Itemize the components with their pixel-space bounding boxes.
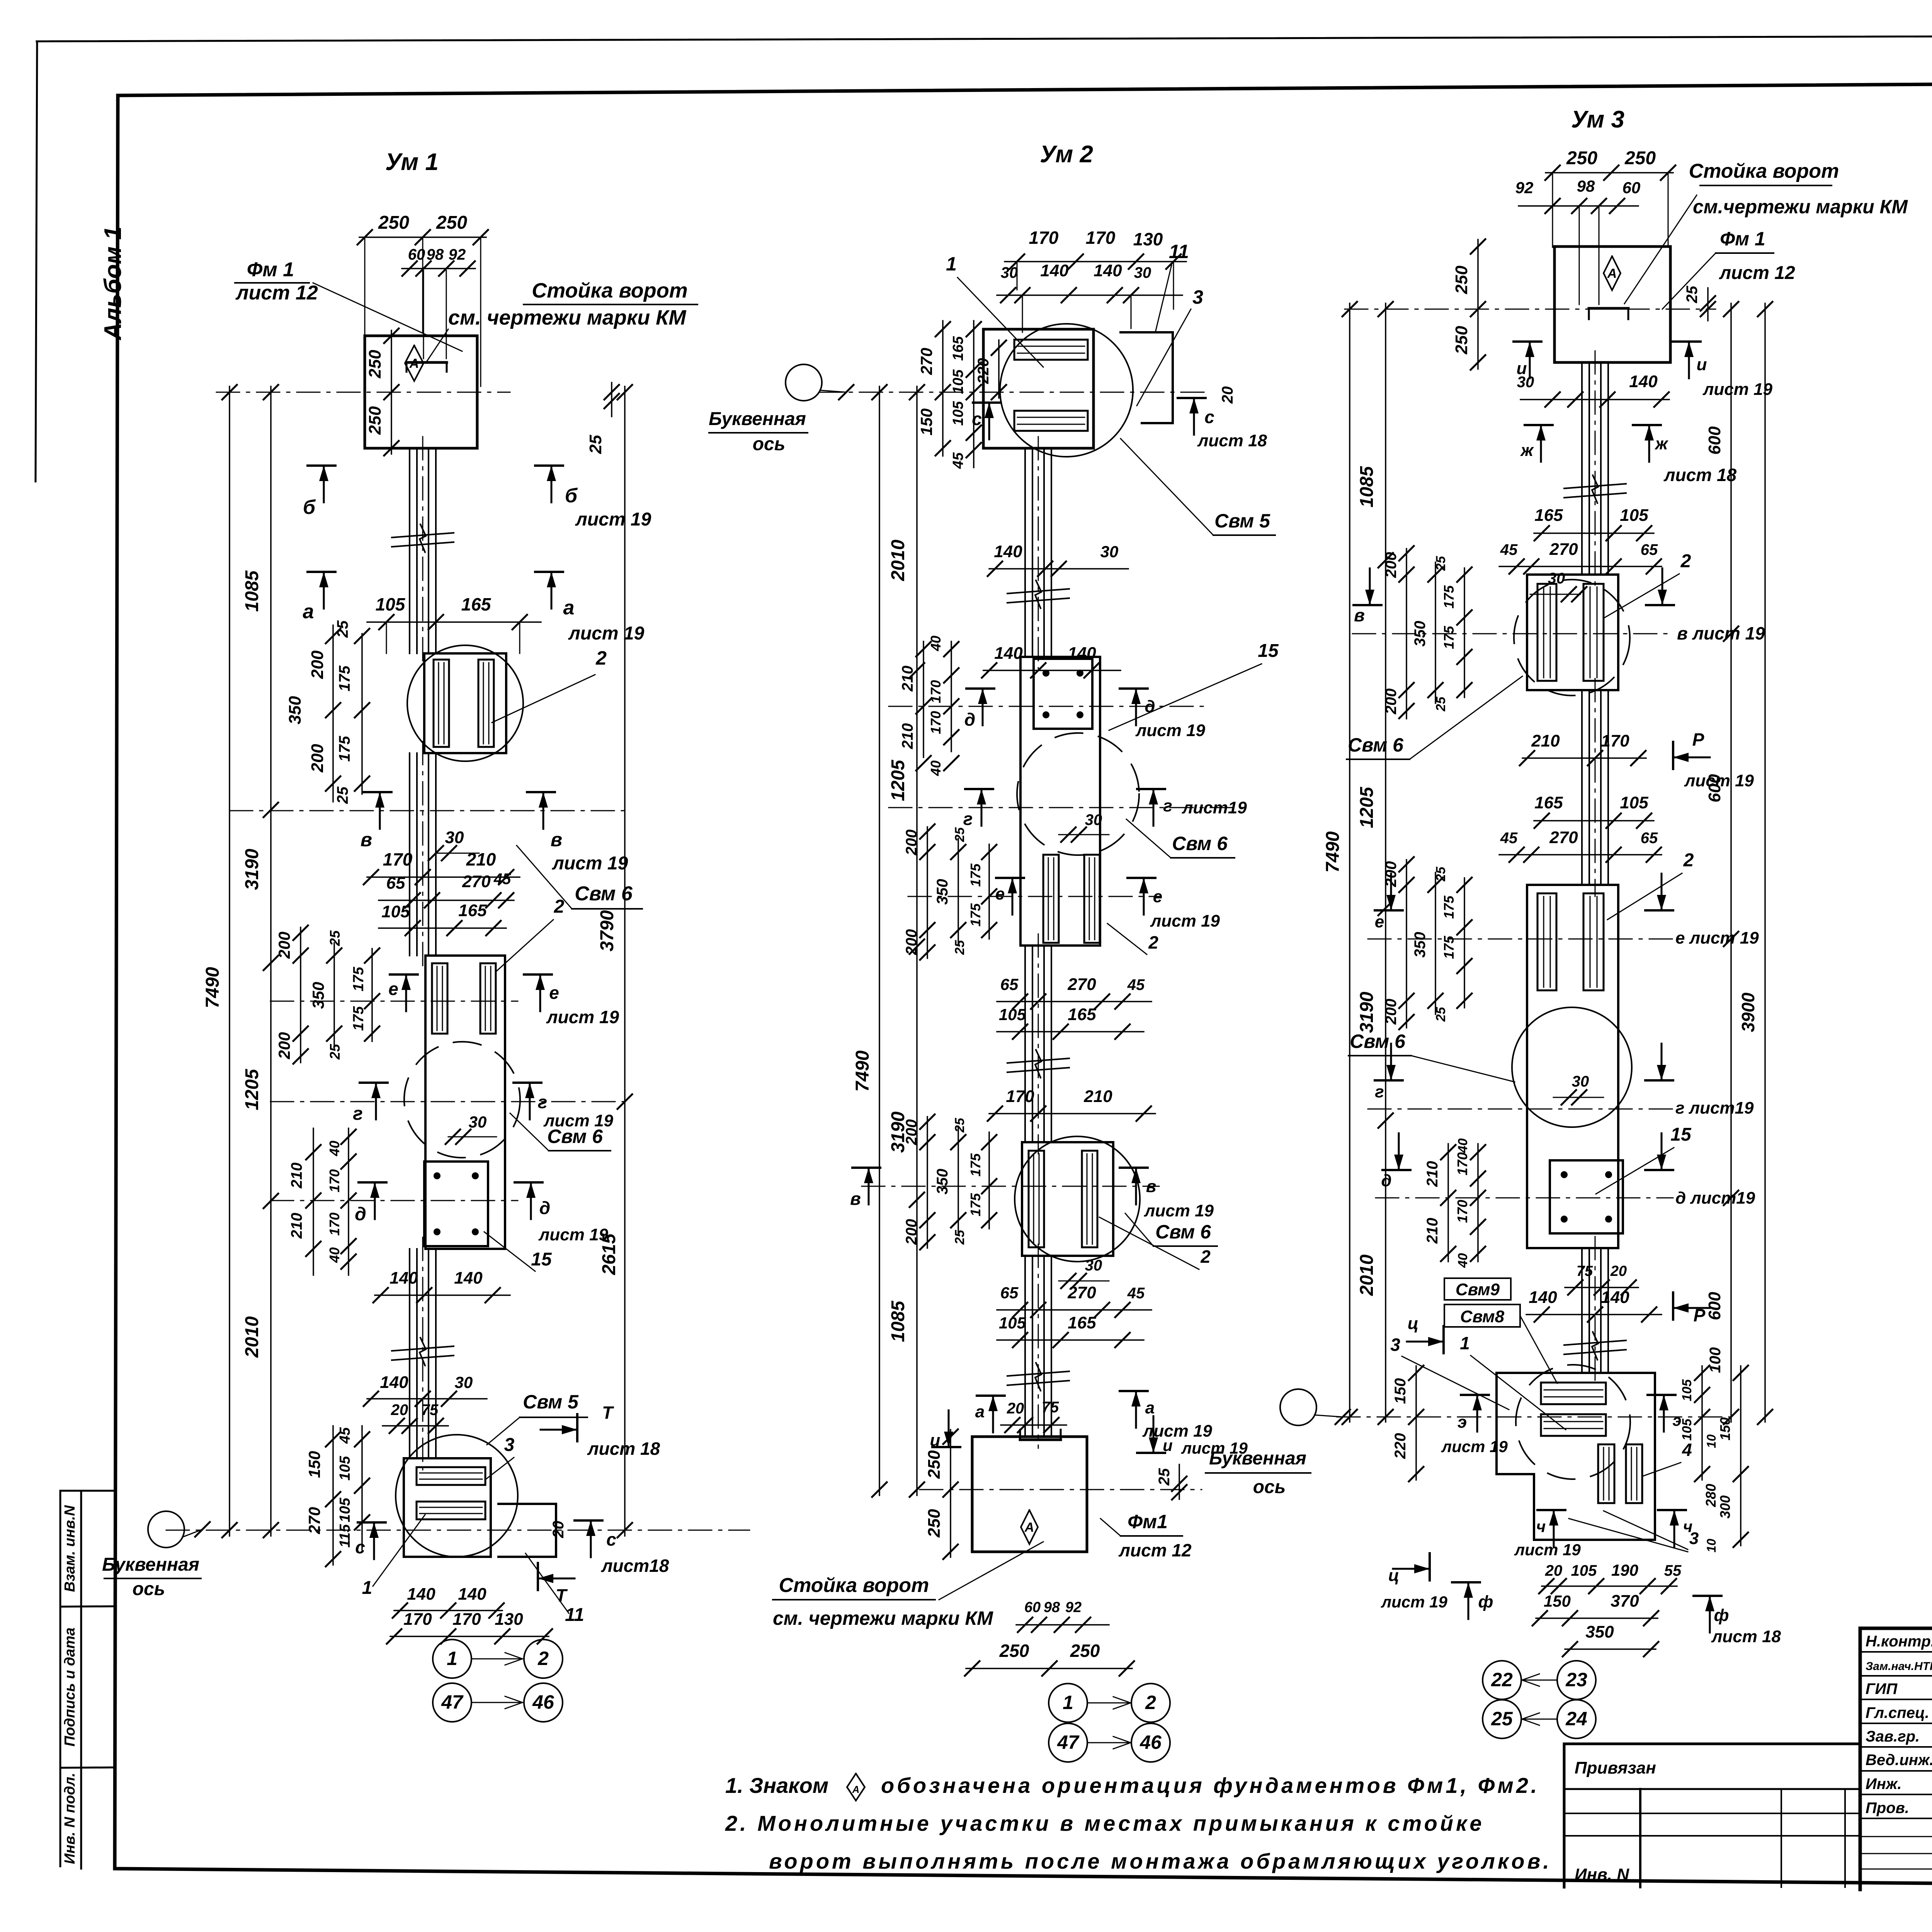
svg-text:25: 25 [952,827,967,842]
note 2 [725,1811,1485,1835]
Ум1 tube mid [410,742,436,967]
svg-text:40: 40 [327,1247,342,1263]
Ум3 dim 165 105 [1534,506,1654,541]
Ум3 cap channel [1589,308,1628,319]
svg-text:11: 11 [1169,241,1189,262]
svg-text:лист 18: лист 18 [1197,431,1267,450]
svg-text:165: 165 [950,336,966,361]
svg-text:45: 45 [1500,830,1518,847]
Ум1 detail 1 left dims [286,620,369,804]
Ум1 dim 140 30 [364,1373,487,1406]
svg-text:а: а [563,597,575,619]
svg-text:130: 130 [1133,229,1163,249]
svg-text:лист 19: лист 19 [552,853,628,874]
Ум2 detail circle dashed [1017,733,1139,855]
svg-text:20: 20 [550,1521,567,1539]
Ум3 foundation block [1554,247,1670,362]
Ум3 label Фм1 лист12 [1662,228,1795,309]
Ум1 bottom plates horizontal slots [417,1467,485,1519]
svg-text:б: б [303,496,316,519]
svg-text:170: 170 [1029,228,1059,248]
Ум3 ч arrows [1514,1510,1692,1559]
svg-text:с: с [355,1537,365,1557]
svg-text:Т: Т [602,1403,614,1423]
svg-text:25: 25 [952,1230,967,1245]
svg-text:лист 19: лист 19 [1144,1201,1214,1220]
svg-text:г: г [1163,796,1172,815]
svg-text:45: 45 [1127,1285,1145,1302]
svg-text:ф: ф [1714,1606,1729,1625]
staff row ГИП Лихачев [1866,1680,1932,1697]
Ум3 detail1 left dims [1383,546,1472,719]
Ум3 bottom left dims [1392,1366,1423,1481]
svg-text:140: 140 [1040,261,1069,280]
svg-text:25: 25 [1684,286,1701,303]
Ум2 label Свм6 (1) [1126,819,1235,858]
svg-text:и: и [1697,355,1707,374]
outer border top [37,34,1932,41]
svg-text:92: 92 [449,246,466,263]
svg-text:3190: 3190 [242,849,262,890]
svg-text:Ум 1: Ум 1 [385,149,439,175]
svg-text:Стойка ворот: Стойка ворот [779,1574,929,1597]
svg-text:45: 45 [337,1427,353,1444]
svg-text:170: 170 [928,711,944,734]
svg-text:165: 165 [461,594,492,614]
Ум1 section b arrows [303,466,651,530]
svg-text:140: 140 [458,1585,486,1604]
Ум1 label Свм 5 [487,1391,587,1445]
Ум1 section d arrows [355,1182,608,1244]
svg-text:65: 65 [1000,975,1019,993]
Ум2 dim 105 165 [997,1005,1144,1039]
staff row Вед.инж. Нелидова [1866,1751,1932,1769]
svg-text:105: 105 [999,1005,1026,1024]
svg-text:лист 19: лист 19 [575,509,651,530]
Ум2 label 11 [1155,241,1189,332]
Ум2 section d arrows [964,689,1206,740]
Ум3 bottom dim 350 [1563,1622,1658,1656]
Ум3 Буквенная ось [1206,1389,1350,1497]
svg-text:2: 2 [1145,1692,1156,1713]
svg-text:65: 65 [1000,1284,1019,1302]
svg-text:24: 24 [1565,1708,1587,1730]
Ум1 bottom axis [166,1530,750,1531]
Ум3 section v axis [1352,633,1673,634]
Ум3 section e arrows [1375,874,1759,947]
svg-text:45: 45 [493,871,511,888]
Ум3 dashed circle upper [1514,580,1630,696]
Ум1 detail 1 label 2 [492,647,607,723]
svg-text:25: 25 [952,940,967,955]
svg-text:3790: 3790 [597,910,617,951]
svg-text:65: 65 [386,874,405,893]
svg-text:ж: ж [1520,441,1534,460]
svg-text:е: е [549,983,559,1003]
svg-text:105: 105 [376,594,406,614]
Ум3 label 2 upper [1604,551,1691,618]
Ум1 circled axis numbers 47 46 [433,1683,563,1722]
svg-text:лист 19: лист 19 [568,623,645,644]
svg-text:165: 165 [1068,1005,1096,1024]
Ум3 section i arrows [1514,342,1773,399]
svg-text:3900: 3900 [1738,992,1758,1032]
svg-text:130: 130 [495,1610,523,1629]
svg-text:3: 3 [504,1435,515,1455]
svg-text:210: 210 [288,1163,305,1189]
svg-text:лист18: лист18 [601,1556,669,1576]
Ум1 bottom left chain 45 150 105 105 115 270 [305,1426,369,1566]
svg-text:170: 170 [452,1610,481,1629]
Ум2 lower circle [1015,1136,1140,1262]
svg-text:45: 45 [1500,541,1518,558]
Ум3 section g arrows [1375,1044,1754,1117]
Ум3 slots mid [1537,893,1604,990]
svg-text:1205: 1205 [1357,786,1377,828]
Ум2 detail2 left dims [903,824,997,960]
Ум1 detail 1 plates [424,653,506,753]
Ум3 dim 210 170 [1520,731,1646,765]
svg-text:лист 19: лист 19 [1702,380,1773,399]
svg-text:105: 105 [1571,1562,1597,1579]
Ум1 detail2 left dims [275,925,379,1064]
svg-text:Буквенная: Буквенная [1209,1448,1306,1469]
svg-text:165: 165 [1068,1313,1096,1332]
svg-text:и: и [930,1431,940,1450]
svg-text:165: 165 [1534,506,1563,525]
Ум1 label 15 [484,1232,552,1271]
svg-text:и: и [1163,1436,1173,1454]
svg-text:10: 10 [1704,1539,1718,1553]
svg-text:140: 140 [454,1269,483,1287]
svg-text:65: 65 [1641,541,1658,558]
Ум3 monolith box lower [1527,885,1618,1248]
Ум3 label Свм9 boxed [1444,1278,1511,1300]
Ум2 slot plates lower [1029,1151,1097,1247]
svg-text:105: 105 [1680,1379,1694,1401]
Ум1 section v arrows [361,792,628,874]
svg-text:45: 45 [950,452,966,469]
svg-text:175: 175 [1441,626,1457,649]
Ум1 T mark bottom [538,1563,575,1605]
Ум3 section e axis [1368,939,1673,940]
svg-text:170: 170 [1006,1087,1034,1106]
svg-text:170: 170 [1086,228,1116,248]
svg-text:220: 220 [1392,1433,1409,1459]
svg-text:92: 92 [1515,179,1534,197]
Ум3 bottom dashed circle [1516,1365,1630,1479]
Ум3 ф mark left [1452,1582,1493,1619]
Ум2 left chain 7490 [852,385,887,1497]
Ум2 break mid [1007,1050,1069,1078]
svg-text:Т: Т [556,1585,568,1605]
Ум3 left chain 7490 [1323,302,1357,1424]
Ум1 tube lower [410,1237,436,1470]
svg-text:в: в [1354,605,1365,625]
Ум1 section g arrows [353,1083,613,1130]
svg-text:А: А [1607,266,1617,281]
svg-text:600: 600 [1705,1292,1724,1320]
Ум2 tube lower [1025,1244,1051,1448]
svg-text:2: 2 [595,647,607,669]
svg-text:ворот выполнять после монт: ворот выполнять после монтажа обрамляющи… [769,1849,1552,1873]
Ум1 dim 105 165 [367,594,541,653]
Ум2 dim 220 [975,340,1006,400]
Ум2 detail3 left dims [903,1114,997,1250]
Ум1 bottom dim 170 170 130 [387,1610,552,1644]
Ум3 detail2 left dims [1383,857,1472,1029]
svg-text:Свм 6: Свм 6 [1350,1031,1406,1052]
svg-text:Зав.гр.: Зав.гр. [1866,1728,1920,1745]
svg-text:лист 12: лист 12 [1118,1540,1192,1560]
Ум2 dim 30 (2) [1059,1257,1109,1288]
Ум1 dim 65 270 45 [379,871,514,908]
staff row Инж. Исаева [1866,1775,1932,1793]
Ум2 monolith outline lower [1022,1142,1113,1256]
Ум2 label 15 [1109,641,1279,730]
Ум2 left chain 2010 1205 3190 1085 [888,385,924,1497]
svg-text:д: д [355,1204,366,1225]
svg-text:250: 250 [378,213,409,233]
margin label Альбом 1 [100,226,126,341]
svg-text:30: 30 [1085,1257,1102,1274]
Ум3 labels 3 1 bottom [1390,1333,1566,1430]
svg-text:20: 20 [391,1401,408,1418]
svg-text:210: 210 [1424,1161,1441,1187]
svg-text:175: 175 [350,1006,367,1031]
Ум3 circled numbers 25 24 [1483,1700,1596,1738]
Ум2 dim 170 210 [988,1087,1155,1121]
svg-text:в: в [850,1189,861,1209]
Ум3 tube mid [1582,679,1608,896]
Ум1 column cap channel [406,362,447,372]
svg-text:25: 25 [1434,1007,1448,1022]
svg-text:98: 98 [427,246,444,263]
svg-text:3: 3 [1689,1529,1699,1548]
note 3 [769,1849,1552,1873]
svg-text:210: 210 [466,849,496,869]
outer border left (partial) [36,41,37,481]
svg-text:47: 47 [441,1691,464,1713]
svg-text:60: 60 [1622,179,1641,197]
svg-text:лист 19: лист 19 [546,1007,619,1027]
svg-text:25: 25 [586,435,605,454]
svg-text:7490: 7490 [852,1050,873,1092]
svg-text:г: г [963,809,973,829]
svg-text:270: 270 [305,1507,323,1534]
svg-text:Свм 5: Свм 5 [1214,510,1270,532]
svg-text:350: 350 [286,696,304,724]
column Ум2 title [1040,141,1093,168]
svg-text:30: 30 [1100,543,1119,561]
svg-text:25: 25 [334,786,351,804]
svg-text:20: 20 [1610,1263,1627,1279]
Ум2 Буквенная ось [709,364,854,454]
svg-text:220: 220 [975,358,992,384]
svg-text:22: 22 [1491,1669,1513,1690]
Ум3 square plate [1550,1160,1623,1233]
svg-text:ось: ось [133,1579,165,1599]
svg-text:105: 105 [1620,793,1648,812]
svg-text:с: с [1204,407,1214,427]
svg-text:25: 25 [1434,696,1448,712]
Ум3 label Свм6 (1) [1347,676,1522,759]
svg-text:250: 250 [366,406,384,435]
Ум2 section i arrows [930,1410,1248,1457]
svg-text:45: 45 [1127,976,1145,993]
Ум1 left chain 40 210 170 170 210 40 [288,1128,356,1275]
Ум1 left chain 1085 3190 1205 2010 [242,385,278,1537]
Ум2 block left dim 250 250 [925,1429,958,1559]
Ум3 monolith box upper [1527,575,1618,690]
svg-text:Фм 1: Фм 1 [247,259,294,281]
Ум2 section c arrows [972,386,1267,450]
svg-text:2: 2 [1148,932,1158,952]
Ум1 detail 2 slot plates [432,963,496,1034]
svg-text:30: 30 [445,828,464,847]
svg-text:75: 75 [1042,1399,1059,1416]
Ум3 э arrows [1441,1395,1682,1456]
Ум1 column tube upper [410,437,436,665]
svg-text:Свм 5: Свм 5 [523,1391,579,1413]
Ум1 block left dim 250 250 [366,328,399,456]
svg-text:20: 20 [1545,1562,1563,1579]
svg-text:350: 350 [934,1169,951,1195]
Ум3 top dim 92 98 60 [1515,177,1641,304]
svg-text:115: 115 [337,1524,353,1548]
svg-text:165: 165 [458,901,487,920]
Ум1 block axis line [216,392,510,393]
Ум2 dim 140 30 [988,542,1128,576]
svg-text:175: 175 [350,966,367,991]
Ум3 section d arrows [1381,1133,1755,1207]
svg-text:2: 2 [1680,551,1691,571]
sidebar label Инв. N подл. [62,1773,78,1864]
Ум2 section e axis [908,896,1159,897]
svg-text:170: 170 [1454,1152,1470,1175]
Ум2 dim 65 270 45 (2) [997,1283,1151,1317]
svg-text:200: 200 [308,650,327,679]
svg-text:ф: ф [1478,1592,1493,1611]
title block main outline [1860,1628,1932,1889]
staff row Н.контр. Махонина [1866,1632,1932,1650]
svg-text:2010: 2010 [242,1316,262,1358]
svg-text:170: 170 [1454,1200,1470,1223]
svg-text:Пров.: Пров. [1866,1799,1909,1816]
svg-text:2: 2 [1200,1247,1211,1267]
svg-text:25: 25 [334,620,351,638]
Ум1 dim 25 right of block [586,383,619,454]
svg-text:1205: 1205 [888,759,908,801]
svg-text:2010: 2010 [1357,1254,1377,1296]
svg-text:350: 350 [1585,1622,1614,1641]
Ум2 tube upper [1025,437,1051,668]
svg-text:ГИП: ГИП [1866,1680,1898,1697]
svg-text:150: 150 [917,408,935,435]
svg-text:с: с [972,409,982,429]
Ум2 circled numbers 47 46 [1049,1723,1170,1762]
svg-text:190: 190 [1611,1561,1638,1579]
Ум2 label 2 (mid) [1107,923,1158,954]
svg-text:лист 19: лист 19 [1150,912,1220,930]
Ум3 bottom slots horizontal [1541,1383,1606,1436]
svg-text:Ум 3: Ум 3 [1571,106,1624,133]
svg-text:2: 2 [554,896,565,917]
Ум2 label 1 [946,253,1043,367]
svg-text:1205: 1205 [242,1068,262,1110]
title block empty rows [1860,1837,1932,1869]
svg-text:175: 175 [968,903,983,927]
svg-text:175: 175 [336,665,353,691]
Ум3 dim 30 (mid) [1553,1073,1604,1105]
svg-text:250: 250 [1070,1641,1100,1661]
svg-text:Буквенная: Буквенная [102,1554,199,1575]
Ум2 foundation block [972,1437,1087,1552]
Ум3 section g axis [1368,1109,1673,1110]
svg-text:170: 170 [403,1610,432,1629]
svg-text:в: в [1146,1177,1156,1196]
svg-text:370: 370 [1611,1592,1639,1611]
svg-text:270: 270 [917,348,935,375]
svg-text:92: 92 [1065,1599,1082,1616]
svg-text:300: 300 [1717,1495,1733,1519]
Ум2 top detail box [983,329,1094,448]
Ум1 dim extension lines [423,270,446,359]
Ум1 circled axis numbers 1 2 [433,1639,563,1678]
svg-text:г лист19: г лист19 [1675,1099,1754,1117]
svg-text:25: 25 [327,930,343,946]
svg-text:Инв. N: Инв. N [1575,1865,1629,1884]
svg-text:А: А [852,1784,860,1795]
Ум3 left chain 1085 1205 3190 2010 [1357,302,1393,1424]
Ум1 dim 105 165 (2) [379,901,506,935]
Ум1 monolith outline box [425,956,505,1249]
Ум1 break upper [392,524,454,552]
svg-text:250: 250 [925,1450,944,1479]
sidebar label Подпись и дата [62,1628,78,1747]
Ум1 detail 1 circle [407,645,523,761]
Ум1 dim 30 [429,828,479,861]
svg-text:15: 15 [1670,1124,1692,1145]
Ум2 label Фм1 лист12 [1100,1511,1192,1560]
svg-text:140: 140 [994,542,1022,561]
svg-text:ц: ц [1408,1314,1418,1333]
Ум1 bottom detail box [404,1458,491,1557]
svg-text:7490: 7490 [1323,831,1343,872]
svg-text:140: 140 [1094,261,1122,280]
svg-text:210: 210 [288,1213,305,1239]
Ум3 э axis [1337,1417,1731,1418]
svg-text:Стойка ворот: Стойка ворот [532,279,688,302]
svg-text:60: 60 [1024,1599,1041,1616]
svg-text:210: 210 [1424,1218,1441,1244]
svg-text:7490: 7490 [202,967,223,1008]
svg-text:в: в [551,829,562,850]
Ум2 label Свм6 (2) [1125,1213,1217,1246]
svg-text:250: 250 [366,350,384,379]
Ум1 section g axis [270,1101,624,1102]
svg-text:105: 105 [950,369,966,394]
Ум3 bottom dim 20 105 190 55 [1539,1561,1682,1594]
Ум2 section a arrows [975,1391,1213,1440]
Ум3 label Стойка ворот [1624,160,1908,304]
svg-text:175: 175 [968,863,983,887]
svg-text:лист 18: лист 18 [1711,1627,1781,1646]
Ум1 dim 170 210 [364,849,520,884]
svg-text:250: 250 [999,1641,1029,1661]
svg-text:100: 100 [1707,1347,1724,1373]
Ум3 label 2 mid [1607,850,1694,920]
